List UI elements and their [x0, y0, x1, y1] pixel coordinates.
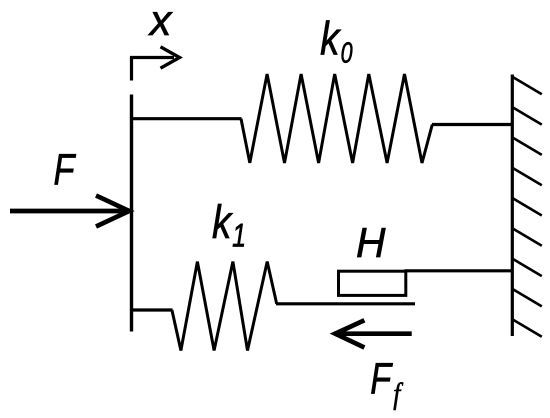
label k1 [212, 195, 246, 254]
wall hatching [512, 77, 542, 337]
spring k0 [241, 74, 432, 163]
label k0 [320, 12, 352, 70]
svg-text:F: F [370, 355, 393, 404]
wire: bar to spring k0 [130, 117, 242, 120]
svg-text:1: 1 [232, 216, 246, 253]
svg-text:k: k [212, 195, 233, 248]
svg-text:H: H [356, 219, 386, 266]
friction force arrow Ff [335, 320, 412, 347]
svg-text:0: 0 [341, 38, 353, 70]
spring k1 [172, 262, 277, 351]
svg-text:x: x [148, 0, 173, 45]
wire: friction block to wall [405, 269, 514, 272]
wire: bar to spring k1 [130, 308, 173, 311]
fixed wall [511, 75, 514, 337]
rod under friction block (from spring k1) [276, 302, 415, 305]
coordinate axis x (dashed reference + arrow) [132, 47, 180, 81]
rigid bar (massless rod at displacement x) [130, 95, 133, 332]
svg-text:F: F [54, 146, 77, 195]
svg-text:k: k [320, 12, 341, 65]
svg-text:f: f [393, 377, 403, 410]
label Ff [370, 355, 403, 411]
friction block H [339, 271, 406, 295]
force arrow F [10, 196, 129, 227]
wire: spring k0 to wall [432, 123, 513, 126]
